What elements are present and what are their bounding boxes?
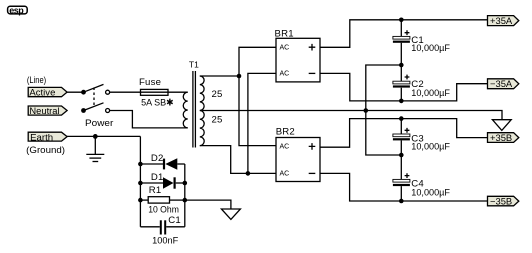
svg-text:Earth: Earth — [30, 133, 53, 144]
node ground rail junction — [364, 108, 369, 113]
node earth junction — [93, 134, 98, 139]
capacitor C1 100nF — [140, 220, 184, 234]
svg-text:Neutral: Neutral — [29, 106, 59, 117]
svg-text:10,000µF: 10,000µF — [411, 142, 450, 153]
wire secondary top tap — [200, 75, 239, 77]
svg-text:10,000µF: 10,000µF — [411, 88, 450, 99]
node secondary top tap — [237, 74, 242, 79]
transformer T1 primary winding — [183, 92, 187, 128]
capacitor C3 — [393, 128, 450, 153]
input tag Neutral — [28, 106, 67, 117]
node C3/C4 midpoint — [399, 153, 404, 158]
node C3 top — [399, 116, 404, 121]
input tag Active — [28, 87, 67, 98]
wire loop breaker left rail — [139, 136, 141, 226]
node C4 bottom — [399, 199, 404, 204]
svg-text:D1: D1 — [151, 172, 164, 183]
switch gang dashed link — [93, 88, 95, 107]
wire fuse to transformer primary — [168, 91, 188, 93]
transformer T1 secondary winding — [200, 76, 204, 146]
fuse F1 — [141, 89, 169, 95]
svg-text:(Ground): (Ground) — [26, 145, 65, 156]
wire Earth tag to loop breaker — [67, 135, 141, 137]
svg-text:T1: T1 — [189, 59, 199, 69]
output tag +35B — [488, 132, 519, 143]
input tag Earth — [28, 132, 67, 143]
svg-text:D2: D2 — [151, 153, 164, 164]
capacitor C4 — [393, 173, 450, 198]
wire BR2 + to +35B rail — [320, 119, 487, 148]
diode D1 — [140, 177, 184, 188]
wire capacitor string B — [400, 119, 402, 201]
svg-text:25: 25 — [212, 115, 223, 126]
svg-text:10,000µF: 10,000µF — [411, 188, 450, 199]
wire switch pole1 to fuse — [110, 91, 141, 93]
svg-text:+35A: +35A — [490, 15, 513, 26]
svg-text:C1: C1 — [168, 215, 181, 226]
wire R1 row to ground triangle left — [185, 200, 231, 209]
svg-text:esp: esp — [9, 5, 24, 15]
svg-text:Active: Active — [29, 88, 55, 99]
node C2 bottom — [399, 99, 404, 104]
output tag -35A — [488, 78, 519, 89]
wire BR1 - to -35A rail — [320, 73, 487, 101]
wire capacitor string A — [400, 20, 402, 101]
bridge rectifier BR1 — [275, 29, 321, 82]
svg-text:AC: AC — [280, 71, 290, 78]
output tag +35A — [488, 15, 519, 26]
switch S1 pole 1 (Active) — [81, 84, 110, 94]
svg-text:Fuse: Fuse — [139, 77, 161, 88]
wire secondary bottom tap to BR2 AC2 — [200, 146, 276, 174]
node left rail R1 row — [138, 198, 143, 203]
svg-text:10,000µF: 10,000µF — [411, 43, 450, 54]
node AC bus 2 junction — [246, 171, 251, 176]
node left rail D2 row — [138, 162, 143, 167]
wire mid rail A to ground rail — [366, 65, 402, 111]
wire center tap ground rail — [200, 111, 502, 120]
svg-text:5A SB✱: 5A SB✱ — [141, 98, 174, 109]
svg-text:Power: Power — [85, 118, 114, 129]
wire AC bus 1 (top tap to BR1 AC1 and BR2 AC1) — [239, 47, 276, 145]
ESP logo — [8, 5, 28, 15]
wire loop breaker right rail — [184, 164, 186, 227]
wire AC bus 2 (BR1 AC2 down to bottom tap wire) — [248, 73, 276, 173]
node right rail D1 row — [183, 181, 188, 186]
svg-text:−35B: −35B — [490, 195, 512, 206]
capacitor C2 — [393, 75, 450, 99]
node left rail D1 row — [138, 181, 143, 186]
node C1 top — [399, 18, 404, 23]
output tag -35B — [488, 195, 519, 206]
svg-text:AC: AC — [280, 171, 290, 178]
transformer T1 core — [193, 71, 196, 148]
wire BR1 + to +35A rail — [320, 20, 488, 48]
wire mid rail B to ground rail — [366, 111, 402, 156]
bridge rectifier BR2 — [276, 127, 320, 182]
svg-text:−35A: −35A — [490, 78, 513, 89]
diode D2 — [140, 158, 184, 169]
earth ground symbol — [86, 136, 104, 161]
node right rail R1 row — [183, 198, 188, 203]
resistor R1 — [140, 197, 184, 203]
wire BR2 - to -35B rail — [320, 173, 487, 201]
switch S1 pole 2 (Neutral) — [81, 103, 110, 113]
svg-text:AC: AC — [280, 44, 290, 51]
svg-text:(Line): (Line) — [27, 75, 46, 86]
node C1/C2 midpoint — [399, 63, 404, 68]
svg-text:100nF: 100nF — [152, 236, 178, 247]
ground triangle left — [221, 209, 240, 219]
ground triangle right — [492, 120, 511, 131]
svg-text:25: 25 — [212, 89, 223, 100]
wire neutral switch to primary bottom — [110, 111, 188, 128]
svg-text:R1: R1 — [149, 185, 162, 196]
svg-text:+35B: +35B — [490, 132, 512, 143]
capacitor C1 — [393, 30, 450, 54]
svg-text:BR2: BR2 — [276, 127, 295, 138]
wire Active tag to switch — [67, 91, 83, 93]
svg-text:AC: AC — [280, 144, 290, 151]
